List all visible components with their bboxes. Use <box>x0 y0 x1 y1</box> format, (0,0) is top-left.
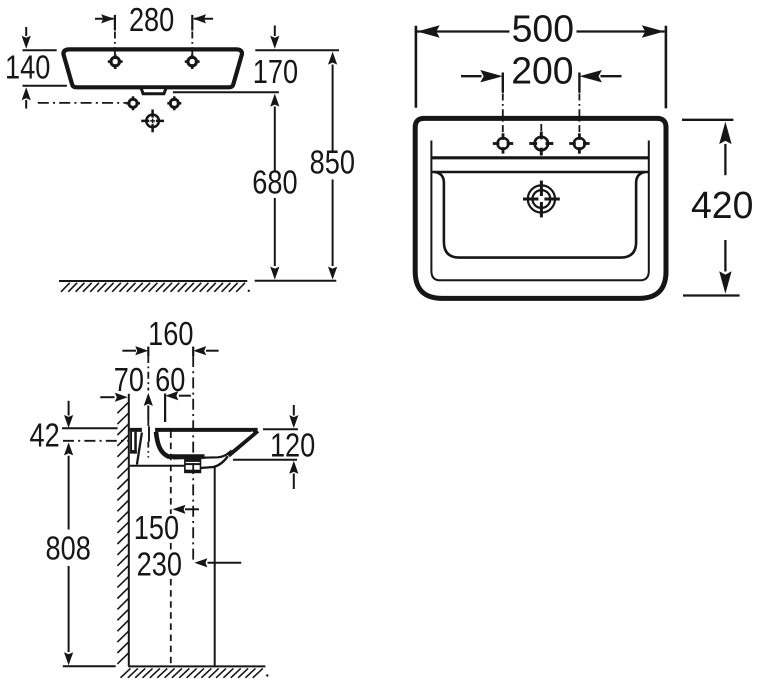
svg-text:280: 280 <box>129 1 174 38</box>
svg-text:42: 42 <box>29 417 59 454</box>
svg-text:120: 120 <box>270 426 315 463</box>
svg-text:500: 500 <box>512 7 574 50</box>
svg-text:420: 420 <box>691 184 753 227</box>
svg-text:70: 70 <box>114 361 144 398</box>
svg-text:170: 170 <box>253 53 298 90</box>
svg-text:850: 850 <box>310 143 355 180</box>
svg-text:680: 680 <box>252 163 297 200</box>
svg-text:60: 60 <box>155 361 185 398</box>
svg-text:160: 160 <box>148 315 193 352</box>
svg-text:230: 230 <box>137 545 182 582</box>
svg-text:808: 808 <box>46 530 91 567</box>
svg-text:150: 150 <box>134 509 179 546</box>
svg-text:200: 200 <box>511 49 573 92</box>
svg-text:140: 140 <box>5 49 50 86</box>
